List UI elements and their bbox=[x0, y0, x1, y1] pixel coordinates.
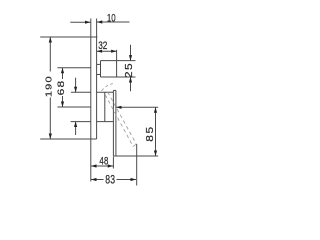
dashed lever open position lower edge bbox=[105, 95, 133, 147]
lever bar left line bbox=[112, 90, 114, 156]
dimension 190 line upper segment bbox=[49, 37, 51, 72]
dashed lever open position upper edge bbox=[108, 92, 137, 144]
diverter knob face + 32 extension bbox=[116, 50, 118, 77]
dimension 85 line bbox=[155, 107, 157, 156]
svg-text:83: 83 bbox=[105, 174, 115, 187]
handle axis reference line left bbox=[57, 106, 91, 108]
handle top edge bbox=[97, 91, 114, 93]
arrowhead leader down to handle top bbox=[74, 87, 77, 93]
arrowhead 68 up bbox=[61, 68, 64, 74]
handle axis reference line right / 85 top extension bbox=[116, 106, 158, 108]
arrowhead 85 up bbox=[154, 107, 157, 113]
dashed lever tip cap bbox=[133, 144, 136, 147]
arrowhead 85 down bbox=[154, 151, 157, 157]
svg-text:85: 85 bbox=[145, 125, 156, 142]
leader arrow shaft to handle top bbox=[75, 78, 77, 93]
handle bottom edge bbox=[97, 121, 114, 123]
dimension 25 lower arrow shaft bbox=[130, 77, 132, 91]
arrowhead 190 up bbox=[49, 37, 52, 43]
diverter knob bottom edge + 25 extension bbox=[101, 76, 136, 78]
svg-text:48: 48 bbox=[99, 155, 108, 168]
arrowhead 10 left-pointing bbox=[97, 20, 103, 23]
knob axis reference line bbox=[57, 67, 91, 69]
svg-text:25: 25 bbox=[124, 62, 135, 78]
arrowhead handle axis left-pointing bbox=[116, 106, 122, 109]
dimension 25 upper arrow shaft bbox=[130, 45, 132, 61]
diverter stem top edge bbox=[97, 63, 101, 65]
arrowhead 83 right bbox=[131, 178, 137, 181]
dimension 83 line left segment bbox=[91, 179, 104, 181]
dimension 32 line bbox=[97, 50, 117, 52]
lever bar top cap bbox=[113, 89, 116, 91]
arrowhead 32 right bbox=[111, 50, 117, 53]
svg-text:190: 190 bbox=[44, 75, 54, 97]
dashed swing arc at lever top bbox=[102, 84, 113, 91]
arrowhead 32 left bbox=[97, 50, 103, 53]
arrowhead 10 right-pointing bbox=[85, 21, 91, 24]
dimension 10 left arrow line bbox=[70, 21, 90, 23]
plate top edge + 190 extension bbox=[40, 36, 97, 38]
handle top extension line left bbox=[71, 91, 91, 93]
dimension 83 line right segment bbox=[117, 179, 137, 181]
83 right extension line bbox=[136, 144, 138, 186]
dimension 10 right arrow line bbox=[97, 21, 130, 23]
dimension 68 line upper segment bbox=[62, 68, 64, 79]
diverter knob top edge + 25 extension bbox=[101, 60, 136, 62]
lever bar right line bbox=[115, 90, 117, 156]
leader arrow shaft to handle bottom bbox=[75, 122, 77, 136]
dimension 48 line bbox=[91, 165, 113, 167]
svg-text:68: 68 bbox=[56, 80, 66, 96]
arrowhead 25 up bbox=[129, 77, 132, 83]
svg-text:32: 32 bbox=[98, 40, 107, 52]
plate bottom edge + 190 extension bbox=[40, 138, 96, 140]
diverter stem bottom edge bbox=[97, 74, 101, 76]
arrowhead 190 down bbox=[49, 134, 52, 140]
wall plate right line (plate front face) bbox=[96, 19, 98, 140]
dimension 68 line lower segment bbox=[62, 96, 64, 107]
arrowhead leader up to handle bottom bbox=[74, 122, 77, 128]
dimension 190 line lower segment bbox=[49, 98, 51, 140]
48 right extension line bbox=[112, 157, 114, 169]
arrowhead 48 left bbox=[91, 164, 97, 167]
arrowhead 25 down bbox=[129, 55, 132, 61]
svg-text:10: 10 bbox=[107, 12, 116, 25]
diverter knob left edge bbox=[100, 61, 102, 77]
handle bottom extension line left bbox=[71, 121, 91, 123]
handle escutcheon face bbox=[104, 92, 106, 121]
wall plate left line (wall face) bbox=[90, 19, 92, 182]
arrowhead 83 left bbox=[91, 178, 97, 181]
lever bottom + 85 bottom extension bbox=[113, 155, 158, 157]
arrowhead 68 down bbox=[61, 102, 64, 108]
arrowhead 48 right bbox=[108, 164, 114, 167]
